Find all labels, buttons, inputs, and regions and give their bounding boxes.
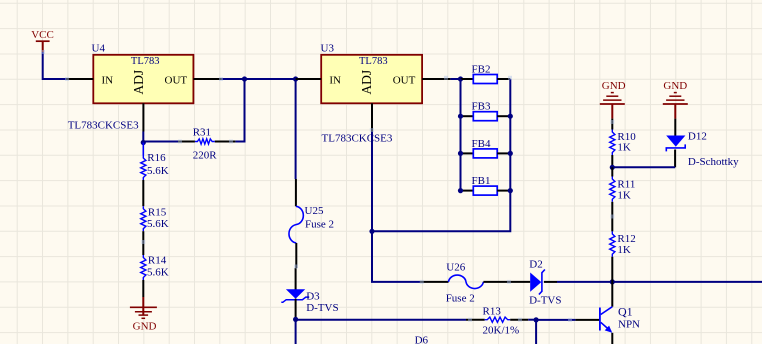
svg-text:U25: U25	[305, 205, 324, 217]
wire U3 ADJ down	[371, 132, 373, 232]
svg-text:U3: U3	[321, 42, 335, 54]
regulator U4 TL783	[92, 42, 194, 103]
pin R31 right	[215, 141, 236, 143]
wire node to R11	[611, 167, 613, 176]
svg-text:1K: 1K	[617, 189, 631, 201]
resistor R16	[141, 143, 169, 181]
pin R13 right	[510, 319, 528, 321]
wire FB left rail	[460, 79, 462, 191]
resistor R10	[610, 130, 637, 156]
pin D2 right	[544, 281, 557, 283]
svg-text:Fuse 2: Fuse 2	[305, 219, 334, 231]
wire GND to R10	[611, 119, 613, 130]
pin U4 OUT	[193, 78, 221, 80]
pin Q1 base	[575, 319, 599, 321]
node FB1 left	[458, 188, 463, 193]
node FB4 left	[458, 151, 463, 156]
transistor Q1 NPN	[600, 304, 640, 332]
wire D12 to R10 node	[612, 166, 675, 168]
wire U4 OUT to U3 IN	[222, 78, 296, 80]
wire U25 to D3	[295, 268, 297, 290]
wire R14 to GND	[142, 280, 144, 297]
wire R15 to R14	[142, 231, 144, 255]
svg-text:IN: IN	[102, 75, 114, 87]
resistor R13	[483, 306, 520, 337]
resistor R12	[610, 231, 636, 256]
node FB3 right	[508, 114, 513, 119]
pin U3 OUT	[422, 78, 450, 80]
svg-text:IN: IN	[329, 75, 341, 87]
svg-text:Q1: Q1	[618, 304, 633, 318]
diode D12 D-Schottky	[666, 131, 739, 169]
wire R11 to R12	[611, 202, 613, 232]
svg-text:ADJ: ADJ	[359, 70, 374, 95]
svg-text:220R: 220R	[193, 149, 218, 161]
svg-text:OUT: OUT	[165, 75, 188, 87]
regulator U3 TL783	[321, 42, 423, 103]
svg-text:R15: R15	[148, 207, 167, 219]
wire endpoint markers	[41, 50, 45, 54]
svg-text:D12: D12	[688, 131, 707, 143]
wire R12 to rail	[611, 257, 613, 282]
pin D3 bottom	[295, 299, 297, 320]
power port GND (above R10)	[600, 80, 626, 119]
wire R16 to R15	[142, 180, 144, 206]
pin U3 ADJ	[371, 103, 373, 131]
svg-text:OUT: OUT	[393, 75, 416, 87]
svg-text:FB1: FB1	[472, 175, 491, 187]
power port GND (above D12)	[663, 80, 688, 119]
wire OUT node down to U25	[295, 79, 297, 179]
svg-text:GND: GND	[663, 80, 687, 92]
pin U3 IN	[296, 78, 322, 80]
wire GND to D12	[674, 119, 676, 136]
wire node down (to D6)	[295, 319, 297, 344]
node R10/R11/D12	[610, 165, 615, 170]
resistor R15	[141, 206, 169, 231]
node FB left rail top	[458, 76, 463, 81]
svg-text:Fuse 2: Fuse 2	[446, 293, 475, 305]
svg-text:NPN: NPN	[618, 318, 640, 330]
ferrite bead FB4	[461, 138, 511, 158]
node ADJ/FB-return junction	[369, 229, 374, 234]
pin U4 IN	[66, 78, 93, 80]
wire D3 node to R13	[296, 319, 466, 321]
svg-text:TL783: TL783	[131, 56, 160, 67]
svg-text:5.6K: 5.6K	[147, 218, 169, 230]
svg-text:TL783CKCSE3: TL783CKCSE3	[68, 119, 139, 131]
pin Q1 emitter	[611, 333, 613, 344]
wire R10 to node	[611, 155, 613, 167]
svg-text:D-TVS: D-TVS	[529, 295, 561, 307]
svg-text:R13: R13	[483, 306, 502, 318]
node FB4 right	[508, 151, 513, 156]
svg-text:20K/1%: 20K/1%	[483, 325, 520, 337]
resistor R31	[193, 127, 218, 162]
ferrite bead FB1	[461, 175, 511, 195]
wire U26 to D2	[483, 281, 530, 283]
svg-text:TL783: TL783	[359, 56, 388, 67]
svg-text:U26: U26	[446, 261, 465, 273]
svg-text:GND: GND	[602, 80, 626, 92]
wire base node to Q1	[536, 319, 575, 321]
svg-text:D2: D2	[529, 258, 542, 270]
svg-text:R31: R31	[193, 127, 211, 139]
node FB1 right	[508, 188, 513, 193]
svg-text:R16: R16	[147, 152, 166, 164]
svg-text:1K: 1K	[617, 141, 631, 153]
svg-text:U4: U4	[92, 42, 106, 54]
wire base node down	[535, 320, 537, 344]
svg-text:TL783CKCSE3: TL783CKCSE3	[322, 132, 393, 144]
svg-text:1K: 1K	[617, 244, 631, 256]
pin R13 left	[466, 319, 485, 321]
node OUT/U25 branch	[293, 76, 298, 81]
ferrite bead FB2	[461, 64, 511, 84]
wire R13 to base node	[528, 319, 536, 321]
svg-text:ADJ: ADJ	[131, 70, 146, 95]
svg-text:5.6K: 5.6K	[147, 165, 169, 177]
pin U25 bottom	[295, 243, 297, 268]
svg-text:D3: D3	[306, 290, 320, 302]
pin U4 ADJ	[142, 103, 144, 131]
svg-text:FB3: FB3	[472, 101, 491, 113]
node U4-OUT/R31	[242, 76, 247, 81]
wire FB right rail to ADJ node	[372, 79, 510, 231]
node FB3 left	[458, 114, 463, 119]
ferrite bead FB3	[461, 101, 511, 121]
svg-text:FB4: FB4	[472, 138, 491, 150]
pin U26 left	[420, 281, 449, 283]
wire U3 OUT to FB rail	[450, 78, 460, 80]
power port VCC	[31, 29, 54, 52]
wire R31 feedback loop	[235, 79, 244, 142]
resistor R14	[141, 255, 169, 280]
node R13/Q1 base	[534, 317, 539, 322]
pin U25 top	[295, 179, 297, 206]
node R12/Q1 collector	[610, 279, 615, 284]
diode D2 D-TVS	[529, 258, 561, 306]
pin R31 left	[178, 141, 195, 143]
fuse U25	[289, 205, 334, 243]
svg-text:FB2: FB2	[472, 64, 491, 76]
node ADJ/R31/R16	[141, 140, 146, 145]
svg-text:D6: D6	[415, 335, 429, 344]
svg-text:5.6K: 5.6K	[147, 267, 169, 279]
svg-text:D-TVS: D-TVS	[306, 302, 338, 314]
wire ADJ node down and right to U26	[372, 231, 420, 282]
wire VCC to U4 IN	[43, 52, 66, 79]
svg-text:GND: GND	[133, 320, 157, 332]
diode D3 D-TVS	[281, 289, 338, 314]
pin D12 bottom	[674, 150, 676, 168]
svg-text:D-Schottky: D-Schottky	[688, 156, 739, 168]
wire R31 to ADJ node	[143, 141, 178, 143]
svg-text:R14: R14	[148, 255, 167, 267]
wire rail to Q1 collector	[611, 282, 613, 307]
wire U4 ADJ down	[142, 132, 144, 143]
node D3/R13	[293, 317, 298, 322]
fuse U26	[446, 261, 484, 304]
resistor R11	[610, 177, 636, 202]
svg-text:VCC: VCC	[31, 29, 54, 41]
wire D2 to right edge	[557, 281, 762, 283]
ground GND (bottom left)	[130, 297, 157, 332]
